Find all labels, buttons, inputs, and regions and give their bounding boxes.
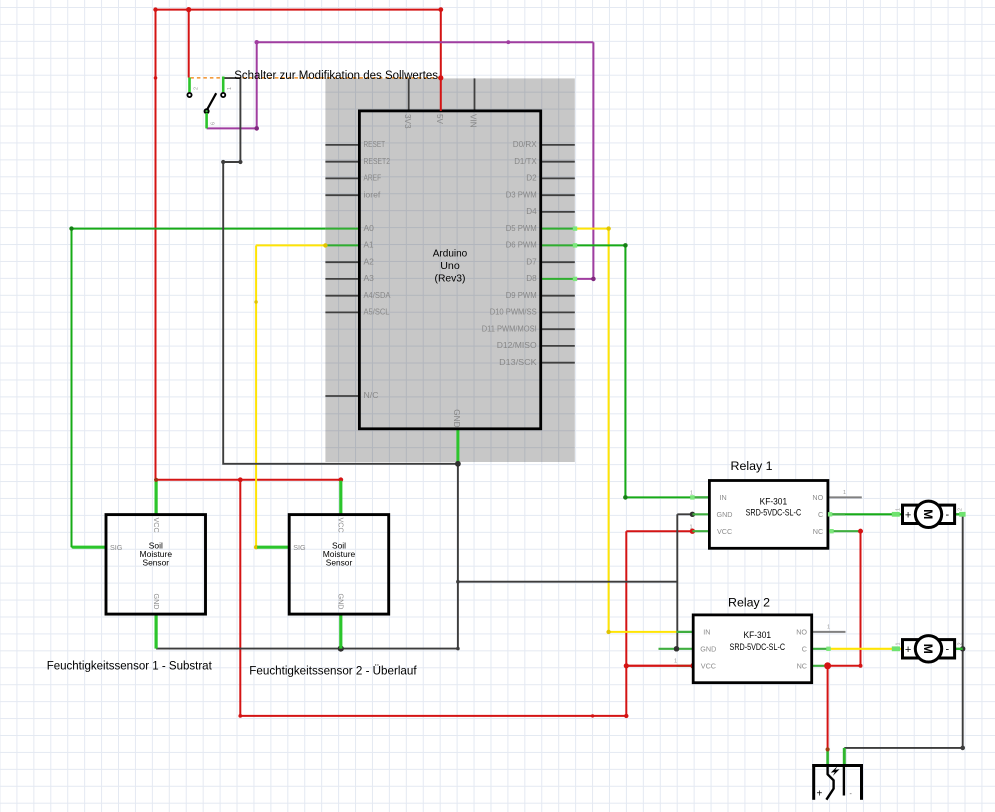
wire red spur relay1 VCC (626, 530, 692, 532)
junction red battery plus big (824, 662, 831, 669)
svg-text:-: - (946, 643, 950, 655)
svg-text:D8: D8 (526, 273, 537, 283)
arduino U1 unconnected left pin legs (325, 145, 359, 396)
arduino U1 top pin labels (403, 114, 478, 129)
wire red vertical to relay VCCs (625, 531, 627, 716)
wire red vertical to arduino 5V pin (440, 10, 442, 111)
arduino U1 pin A0 leg (green) (325, 228, 359, 230)
relay1 VCC leg (692, 530, 709, 532)
sensor2 VCC leg (339, 481, 342, 515)
junction red bottom corner right (624, 714, 628, 718)
junction black relay branch T (456, 580, 460, 584)
svg-text:D3 PWM: D3 PWM (506, 189, 537, 199)
wire red battery plus vertical (827, 666, 829, 750)
junction black switch bendpoint (221, 160, 225, 164)
battery top edge (812, 764, 863, 767)
svg-text:GND: GND (337, 594, 346, 610)
svg-text:+: + (817, 789, 823, 800)
arduino U1 part title (433, 249, 468, 285)
battery jagged divider (826, 766, 833, 800)
junction yellow A1 bendpoint (254, 300, 257, 303)
junction black battery minus corner (960, 746, 965, 751)
junction red relay1 VCC end (690, 529, 695, 534)
svg-text:Schalter zur Modifikation des: Schalter zur Modifikation des Sollwertes (234, 68, 438, 82)
sensor2 SIG leg (257, 546, 289, 549)
relay2 GND black junction (674, 646, 679, 651)
wire black battery minus horizontal (844, 747, 962, 749)
svg-text:NO: NO (796, 628, 807, 637)
junction purple top bendpoint (506, 40, 510, 44)
switch S1 pin2 terminal (221, 93, 225, 97)
arduino U1 pin A1 leg (green) (325, 244, 359, 246)
svg-text:1: 1 (227, 87, 233, 90)
relay1 IN leg light cap (690, 495, 694, 499)
wire green into relay1 IN (625, 496, 709, 498)
svg-text:NO: NO (812, 493, 823, 502)
relay2 GND leg (659, 648, 694, 650)
junction purple top-left corner (255, 40, 259, 44)
switch S1 pin1 leg (188, 78, 191, 93)
junction purple D8 corner (591, 277, 596, 282)
svg-text:GND: GND (452, 409, 461, 427)
svg-text:1: 1 (674, 659, 677, 665)
arduino U1 pin D8 leg (green) (541, 278, 575, 280)
svg-text:D2: D2 (526, 173, 537, 183)
relay2 title (730, 630, 786, 653)
wire green relay1 C to motor1 (828, 513, 903, 515)
junction red top at switch branch (186, 7, 191, 12)
wire black GND vertical below arduino (457, 464, 459, 649)
arduino U1 right pin labels (482, 139, 537, 367)
wire black sensors GND bus (156, 648, 458, 650)
motor1 minus cap (959, 512, 965, 517)
junction black relay2 GND end (674, 646, 679, 651)
sensor2 title (323, 540, 356, 567)
arduino U1 top pin legs 3V3 VIN (409, 78, 475, 111)
svg-text:IN: IN (703, 628, 710, 637)
svg-text:-: - (946, 509, 950, 521)
svg-text:AREF: AREF (364, 173, 382, 183)
relay2 NO leg (812, 631, 846, 633)
motor1 body (903, 505, 955, 523)
svg-text:SIG: SIG (293, 543, 306, 552)
wire purple top horizontal (257, 41, 594, 43)
relay1 NC red dot overlay (858, 529, 863, 534)
battery left edge (812, 764, 815, 800)
svg-text:VCC: VCC (152, 518, 161, 533)
svg-text:Uno: Uno (440, 261, 460, 272)
svg-text:D0/RX: D0/RX (513, 139, 537, 149)
relay2 C leg light cap (826, 647, 830, 651)
battery right edge (860, 764, 863, 800)
wire red vertical sensor2 VCC drop (340, 480, 342, 482)
wire purple D8 stub (575, 278, 594, 280)
junction black relay1 GND end (690, 512, 695, 517)
svg-text:SRD-5VDC-SL-C: SRD-5VDC-SL-C (730, 642, 786, 653)
junction red sensor2 VCC (338, 477, 343, 482)
wire red spur relay2 VCC (626, 665, 693, 667)
svg-text:D9 PWM: D9 PWM (506, 290, 537, 300)
ratsnest (dashed) switch to 5V (190, 77, 439, 79)
svg-text:Feuchtigkeitssensor 1 - Substr: Feuchtigkeitssensor 1 - Substrat (47, 659, 213, 673)
svg-text:1: 1 (896, 508, 902, 511)
relay1 NC leg (828, 530, 861, 532)
wire purple vertical to switch (256, 42, 258, 128)
svg-text:+: + (905, 509, 911, 521)
svg-text:NC: NC (813, 527, 823, 536)
junction red top-left corner (153, 7, 157, 11)
relay2 VCC leg (677, 665, 694, 667)
motor1 minus leg (955, 513, 963, 515)
junction red bottom corner left (238, 714, 242, 718)
junction green A0 corner (69, 226, 73, 230)
junction red bottom bendpoint (591, 714, 594, 717)
wire green D6 vertical to relay1 IN (624, 245, 626, 497)
svg-text:D10 PWM/SS: D10 PWM/SS (490, 307, 537, 317)
relay2 pin labels left (700, 628, 716, 671)
relay1 pin labels left (717, 493, 733, 536)
svg-text:SIG: SIG (110, 543, 123, 552)
svg-text:D1/TX: D1/TX (514, 156, 537, 166)
wire black GND branch to relays (458, 581, 677, 583)
svg-text:M: M (921, 644, 935, 654)
wire red left long vertical to sensors VCC (155, 10, 157, 480)
junction red relay2 VCC end (691, 663, 697, 669)
svg-text:GND: GND (700, 644, 716, 653)
wire yellow D5 vertical to relay2 IN (608, 229, 610, 632)
wire yellow A1 vertical to sensor2 SIG (255, 245, 257, 547)
junction red relay1 NC top (858, 529, 863, 534)
relay1 NO leg (828, 496, 862, 498)
relay2 IN leg (677, 631, 694, 633)
relay2 NC leg (812, 665, 829, 667)
junction red-green battery plus bottom (826, 747, 830, 751)
svg-text:C: C (818, 510, 823, 519)
svg-text:GND: GND (152, 594, 161, 610)
wire red relay NC join horizontal (828, 665, 861, 667)
svg-text:D5 PWM: D5 PWM (506, 223, 537, 233)
sensor1 VCC leg (155, 481, 158, 515)
svg-text:+: + (905, 644, 911, 656)
junction green relay1 IN corner (623, 495, 628, 500)
switch S1 common leg (205, 113, 208, 128)
svg-text:VCC: VCC (701, 661, 716, 670)
svg-text:Arduino: Arduino (433, 249, 468, 260)
sensor1 SIG leg (72, 546, 106, 549)
junction red NC corner (859, 664, 863, 668)
wire yellow relay2 C to motor2 (829, 648, 903, 650)
battery minus leg (843, 748, 846, 766)
junction red ratsnest on 5V wire (438, 75, 443, 80)
wire red sensors VCC horizontal (156, 479, 341, 481)
svg-text:RESET2: RESET2 (364, 156, 391, 166)
junction purple switch corner (254, 126, 259, 131)
arduino U1 background (325, 78, 574, 462)
relay2 VCC red end dot (691, 663, 697, 669)
arduino U1 unconnected right pin legs (541, 145, 575, 363)
svg-text:1: 1 (690, 525, 693, 531)
relay1 pin labels right (812, 493, 823, 536)
svg-text:D6 PWM: D6 PWM (506, 240, 537, 250)
svg-text:2: 2 (958, 642, 964, 645)
svg-text:VCC: VCC (717, 527, 732, 536)
switch S1 lever (207, 93, 217, 110)
sensor1 GND leg (155, 614, 158, 649)
svg-text:A1: A1 (364, 240, 374, 250)
battery inner divider (843, 766, 845, 796)
junction red relay2 VCC branch (624, 663, 629, 668)
arduino U1 left pin labels (364, 139, 391, 400)
junction yellow D5 corner (606, 226, 610, 230)
D8 leg light cap (573, 277, 577, 281)
wire black switch pin2 top (223, 78, 458, 464)
svg-text:GND: GND (717, 510, 733, 519)
wire red bottom horizontal (240, 715, 626, 717)
relay1 title (746, 496, 802, 518)
relay2 C leg (812, 648, 829, 650)
wire black motor minus vertical (962, 514, 964, 748)
junction black switch corner (238, 160, 242, 164)
svg-text:N/C: N/C (364, 390, 379, 400)
svg-text:M: M (921, 509, 935, 519)
svg-text:C: C (802, 644, 807, 653)
switch S1 pin1 terminal (187, 93, 191, 97)
relay1 NC leg light cap (829, 529, 833, 533)
junction red VCC bus branch (238, 477, 243, 482)
svg-text:D4: D4 (526, 206, 537, 216)
junction black motor2 minus (960, 646, 965, 651)
relay2 NC big red dot overlay (824, 662, 831, 669)
motor2 plus green cap overlay (895, 647, 901, 651)
motor2 minus leg (955, 648, 963, 650)
wire green into sensor1 SIG (72, 546, 90, 548)
junction red top-right corner (438, 7, 443, 12)
svg-text:(Rev3): (Rev3) (435, 274, 466, 285)
wire red long vertical down from VCC bus (239, 480, 241, 716)
svg-text:A0: A0 (364, 223, 375, 233)
svg-text:VCC: VCC (337, 518, 346, 533)
motor2 plus leg cap (892, 646, 900, 651)
svg-text:1: 1 (690, 491, 693, 497)
battery lightning bolt (831, 766, 840, 776)
svg-text:A4/SDA: A4/SDA (364, 290, 391, 300)
junction black sensor2 GND (338, 646, 344, 652)
wire yellow A1 horizontal (256, 244, 325, 246)
svg-text:A3: A3 (364, 273, 375, 283)
junction black arduino GND (455, 461, 461, 467)
motor2 body (903, 640, 955, 658)
junction red-green sensor1 VCC (154, 478, 158, 482)
svg-text:SRD-5VDC-SL-C: SRD-5VDC-SL-C (746, 507, 802, 518)
switch S1 common terminal (205, 109, 209, 113)
svg-text:1: 1 (843, 490, 846, 496)
motor1 circle (915, 501, 941, 527)
relay1 body (709, 481, 828, 549)
svg-text:KF-301: KF-301 (744, 630, 772, 641)
svg-text:5V: 5V (435, 114, 444, 125)
svg-text:D12/MISO: D12/MISO (497, 340, 537, 350)
svg-text:Sensor: Sensor (143, 558, 170, 568)
arduino U1 pin GND leg (green) (456, 429, 459, 464)
wire green A0 vertical (71, 229, 73, 548)
battery plus leg (826, 749, 829, 766)
junction black sensors GND bus end (456, 647, 460, 651)
junction yellow relay2 IN corner (606, 630, 610, 634)
svg-text:Relay 2: Relay 2 (728, 596, 770, 610)
relay1 GND leg (692, 513, 709, 515)
svg-text:VIN: VIN (469, 114, 478, 128)
sensor2 body (289, 515, 389, 615)
motor1 plus leg cap (892, 512, 900, 517)
relay1 C leg (828, 513, 845, 515)
svg-text:D13/SCK: D13/SCK (499, 357, 537, 367)
arduino U1 pin D6 leg (green) (541, 244, 575, 246)
arduino U1 body (359, 111, 540, 429)
svg-text:2: 2 (194, 87, 200, 90)
svg-text:IN: IN (720, 493, 727, 502)
svg-text:D7: D7 (526, 256, 537, 266)
junction red bendpoint on left vertical (154, 76, 158, 80)
wire yellow D5 horizontal (575, 228, 609, 230)
sensor1 body (106, 515, 206, 615)
junction yellow A1 leg end (323, 243, 327, 247)
wire purple vertical (592, 42, 594, 279)
svg-text:1: 1 (827, 625, 830, 631)
wire green A0 to sensor1 SIG horizontal (72, 228, 326, 230)
wire black into relay1 GND (677, 513, 692, 515)
wire red 5V top horizontal (156, 9, 441, 11)
svg-text:1: 1 (896, 642, 902, 645)
svg-text:Sensor: Sensor (326, 558, 353, 568)
arduino U1 pin D5 leg (green) (541, 228, 575, 230)
relay2 pin labels right (796, 628, 807, 671)
svg-text:D11 PWM/MOSI: D11 PWM/MOSI (482, 323, 537, 333)
wire yellow into relay2 IN (609, 631, 677, 633)
relay1 IN leg (692, 496, 709, 498)
junction green D6 corner (623, 243, 628, 248)
wire purple horizontal to switch pin3 (207, 127, 257, 129)
wire red vertical to switch pin1 (188, 10, 190, 78)
svg-text:Relay 1: Relay 1 (731, 459, 773, 473)
switch S1 pin2 leg (222, 77, 225, 93)
D6 leg light cap (573, 243, 577, 247)
sensor2 GND leg (339, 614, 342, 649)
svg-text:KF-301: KF-301 (760, 496, 788, 507)
motor2 circle (915, 636, 941, 662)
svg-text:A2: A2 (364, 256, 375, 266)
svg-text:2: 2 (958, 508, 964, 511)
wire red relay1 NC vertical (860, 531, 862, 666)
svg-text:ioref: ioref (364, 189, 381, 199)
D5 leg light cap (573, 226, 577, 230)
relay2 VCC red wire overlay (626, 665, 693, 667)
relay1 C leg light cap (828, 512, 832, 516)
svg-text:A5/SCL: A5/SCL (364, 307, 390, 317)
junction yellow A1 corner (254, 545, 258, 549)
sensor1 title (140, 540, 173, 567)
svg-text:6: 6 (211, 122, 217, 125)
svg-text:RESET: RESET (364, 139, 386, 149)
wire green D6 horizontal (575, 244, 626, 246)
svg-text:NC: NC (797, 661, 807, 670)
svg-text:Feuchtigkeitssensor 2 - Überla: Feuchtigkeitssensor 2 - Überlauf (249, 664, 417, 678)
relay2 body (693, 615, 812, 683)
svg-text:3V3: 3V3 (403, 114, 412, 129)
wire black relay GND vertical (676, 514, 678, 649)
